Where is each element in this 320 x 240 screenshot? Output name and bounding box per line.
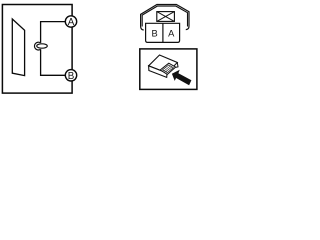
voice coil loop (34, 42, 40, 50)
socket rib 1 (164, 66, 170, 71)
connector right edge (176, 63, 178, 68)
svg-text:B: B (151, 29, 157, 39)
terminal A circle (65, 16, 76, 27)
cavity divider (162, 23, 164, 42)
wire to terminal A (41, 22, 66, 43)
connector socket face (160, 63, 175, 74)
connector body top face (149, 55, 178, 73)
lock window diagonal 1 (157, 12, 175, 22)
svg-text:A: A (168, 29, 175, 39)
speaker box (2, 5, 72, 94)
voice coil ellipse (37, 44, 48, 48)
connector body front face (149, 66, 168, 78)
wire to terminal B (41, 49, 66, 75)
socket rib 2 (166, 67, 172, 72)
connector housing inner outline (142, 6, 187, 26)
terminal B circle (65, 70, 76, 81)
pointer arrow (172, 70, 192, 86)
lock window diagonal 2 (157, 12, 175, 22)
connector lock window (157, 12, 175, 22)
inspection box (140, 49, 197, 90)
terminal cavity row (146, 23, 180, 42)
connector housing outer outline (141, 5, 189, 31)
socket inner rim (163, 65, 174, 73)
svg-text:B: B (68, 71, 75, 82)
speaker cone (12, 19, 24, 76)
svg-text:A: A (68, 17, 75, 28)
